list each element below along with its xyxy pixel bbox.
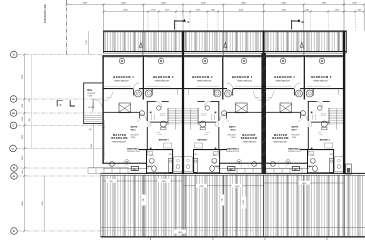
svg-text:745: 745: [143, 198, 145, 201]
section flag C small: [57, 100, 63, 107]
svg-text:NON-SLIP TILES: NON-SLIP TILES: [288, 151, 300, 153]
right wall witness to top: [343, 0, 345, 31]
svg-text:TIMBER PARQUET: TIMBER PARQUET: [114, 80, 129, 83]
svg-text:BOUNDARY LINE: BOUNDARY LINE: [44, 4, 47, 23]
svg-text:650: 650: [22, 170, 24, 173]
grid E continuation across hatch: [101, 230, 262, 232]
svg-text:4500: 4500: [22, 201, 24, 205]
svg-text:TIMBER PARQUET: TIMBER PARQUET: [237, 80, 252, 83]
svg-text:BATH/WC1: BATH/WC1: [159, 139, 169, 142]
svg-text:E: E: [13, 229, 15, 233]
svg-text:A/C: A/C: [294, 168, 298, 171]
band left end: [102, 31, 104, 53]
right exterior wall: [343, 31, 345, 174]
svg-text:BEDROOM 2: BEDROOM 2: [153, 75, 174, 79]
grid circle C: [10, 122, 17, 129]
svg-text:BATH/WC2: BATH/WC2: [288, 148, 300, 151]
roof dim rotated 1745: [242, 197, 247, 209]
roof hatch top border: [101, 172, 365, 174]
svg-text:240: 240: [89, 129, 92, 131]
witness dashed verticals: [148, 12, 355, 30]
party wall unit2|unit3 firewall: [263, 31, 265, 53]
band right end: [346, 31, 348, 53]
section flag A: [175, 19, 191, 30]
roof hatch dark verticals: [143, 175, 344, 236]
svg-text:BATH/WC2: BATH/WC2: [227, 148, 239, 151]
svg-text:BATH/WC1: BATH/WC1: [197, 139, 207, 142]
roof hatch area: [101, 173, 365, 240]
dim line left of master bedroom: [93, 124, 95, 168]
svg-text:TIMBER PARQUET: TIMBER PARQUET: [313, 80, 328, 83]
grid circle C1: [10, 145, 17, 152]
svg-text:TIMBER PARQUET: TIMBER PARQUET: [197, 80, 212, 83]
L mark: [70, 100, 75, 106]
roof hatch bottom border: [101, 236, 365, 237]
roof dim rotated 745 left: [142, 195, 146, 206]
roof dim 1495 bottom: [174, 230, 186, 234]
left dim 1200: [88, 31, 90, 55]
svg-text:1200: 1200: [86, 40, 88, 44]
left vertical dim line: [23, 55, 25, 232]
band top border: [103, 30, 346, 32]
party wall unit1|unit2: [182, 31, 184, 174]
svg-text:A/C: A/C: [230, 168, 234, 171]
section flag B: [292, 19, 305, 30]
svg-text:UP 400: UP 400: [88, 107, 94, 109]
svg-text:BATH/: BATH/: [131, 126, 138, 129]
balcony BAL unit1: [83, 83, 103, 124]
svg-text:BAL.: BAL.: [87, 89, 93, 92]
ledge under BAL unit1: [88, 168, 128, 174]
svg-text:C: C: [13, 123, 15, 127]
balcony steps: [84, 115, 103, 117]
svg-text:WC3: WC3: [231, 130, 237, 132]
svg-text:BATH/: BATH/: [292, 126, 299, 129]
svg-text:1875: 1875: [22, 135, 24, 139]
dim line D1 to E: [43, 176, 45, 231]
svg-text:C: C: [59, 103, 61, 107]
svg-text:BEDROOM: BEDROOM: [111, 137, 128, 140]
grid dash-dot lines: [16, 55, 103, 232]
svg-text:BEDROOM 2: BEDROOM 2: [311, 75, 332, 79]
svg-text:BEDROOM 1: BEDROOM 1: [274, 75, 295, 79]
BAL texts: [87, 89, 96, 109]
svg-text:BATH/WC2: BATH/WC2: [127, 148, 139, 151]
svg-text:D: D: [13, 166, 15, 170]
svg-text:BEDROOM 2: BEDROOM 2: [192, 75, 213, 79]
grid circle D1: [11, 173, 18, 180]
grid circle letters: [12, 53, 17, 234]
svg-text:4000: 4000: [42, 202, 44, 206]
ledge unit3: [266, 169, 302, 175]
svg-text:TIMBER PARQUET: TIMBER PARQUET: [155, 80, 170, 83]
grid circles left: [10, 51, 18, 234]
svg-text:BEDROOM 1: BEDROOM 1: [113, 75, 134, 79]
svg-text:NON-SLIP TILES: NON-SLIP TILES: [226, 151, 238, 153]
svg-text:1650: 1650: [22, 156, 24, 160]
svg-text:WC3: WC3: [292, 130, 298, 132]
svg-text:745: 745: [221, 198, 223, 201]
svg-text:410: 410: [29, 119, 31, 122]
svg-text:BEDROOM 1: BEDROOM 1: [232, 75, 253, 79]
svg-text:3750: 3750: [22, 75, 24, 79]
right side ledge box: [346, 164, 352, 174]
svg-text:A: A: [13, 53, 15, 57]
svg-text:BEDROOM: BEDROOM: [272, 137, 289, 140]
roof dim line 1: [104, 180, 184, 182]
svg-text:1150: 1150: [22, 104, 24, 108]
boundary line: [66, 0, 68, 55]
grid circle B1: [10, 96, 17, 103]
svg-text:NON-SLIP TILES: NON-SLIP TILES: [127, 151, 139, 153]
unit1 texts: [111, 75, 174, 144]
svg-text:WC3: WC3: [131, 130, 137, 132]
balcony band hatch: [103, 31, 346, 53]
unit2 texts: [192, 75, 257, 144]
witness solid verticals: [104, 5, 365, 31]
roof dim line 3: [264, 182, 344, 184]
grid circle B2: [10, 110, 17, 117]
ledge unit2: [229, 169, 262, 175]
unit3 texts: [272, 75, 332, 144]
inner dim line left: [30, 55, 32, 149]
unit 1 geometry: [102, 32, 183, 174]
top dimension row 1: [66, 3, 365, 6]
svg-text:2400: 2400: [91, 144, 93, 148]
bottom ticks: [150, 238, 152, 240]
roof hatch inner line: [101, 227, 365, 229]
roof dim line 2: [183, 185, 264, 187]
balcony door arc: [93, 99, 102, 108]
roof hatch left border: [100, 173, 102, 237]
svg-text:550: 550: [29, 99, 31, 102]
unit 2 geometry mirrored: [183, 32, 264, 174]
left vertical dim texts: [22, 75, 24, 206]
grid circle E: [11, 228, 18, 235]
svg-text:BATH/: BATH/: [229, 126, 236, 129]
svg-text:BATH/WC1: BATH/WC1: [320, 139, 330, 142]
svg-text:BEDROOM: BEDROOM: [241, 137, 258, 140]
unit 3 geometry: [263, 32, 344, 174]
svg-text:A/C: A/C: [133, 168, 137, 171]
svg-text:1745: 1745: [243, 200, 245, 204]
top dimension row 2: [103, 10, 365, 13]
svg-text:TIMBER PARQUET: TIMBER PARQUET: [275, 80, 290, 83]
grid circle A: [11, 51, 18, 58]
band bottom border: [103, 51, 346, 53]
roof dim rotated 745 mid: [220, 195, 224, 206]
svg-text:1000: 1000: [22, 117, 24, 121]
grid circle D: [11, 165, 18, 172]
up arrow: [92, 103, 94, 112]
